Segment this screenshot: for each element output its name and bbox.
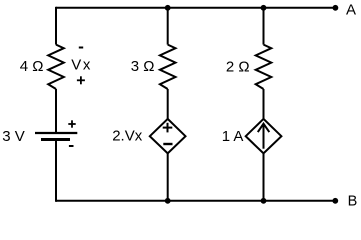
svg-text:1 A: 1 A (222, 128, 244, 145)
svg-text:3 Ω: 3 Ω (131, 58, 155, 75)
svg-text:A: A (346, 2, 356, 19)
svg-text:4 Ω: 4 Ω (20, 58, 44, 75)
svg-text:2.Vx: 2.Vx (112, 128, 143, 145)
svg-text:Vx: Vx (71, 57, 92, 74)
svg-text:B: B (348, 194, 358, 210)
svg-text:3 V: 3 V (2, 128, 25, 145)
svg-text:2 Ω: 2 Ω (226, 58, 250, 75)
